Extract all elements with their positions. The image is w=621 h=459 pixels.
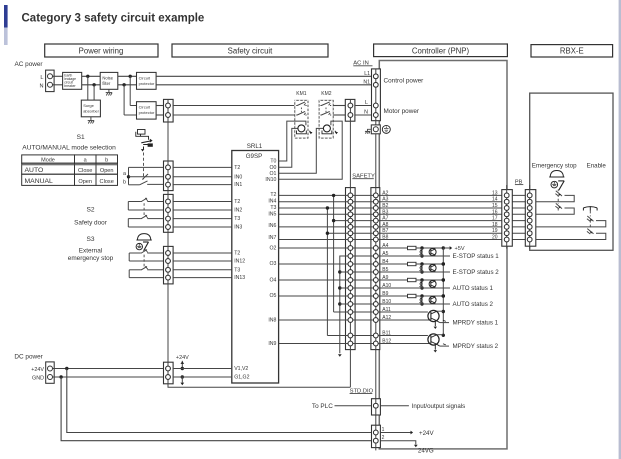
svg-text:T3: T3 xyxy=(234,267,240,273)
wire breaker to noise filter L xyxy=(82,75,101,78)
left strip vertical wire xyxy=(167,122,169,362)
svg-text:V1,V2: V1,V2 xyxy=(234,366,248,372)
wire O1 to KM2 coil xyxy=(279,128,324,173)
svg-text:S1: S1 xyxy=(77,134,85,141)
S1 key switch symbol xyxy=(136,130,153,152)
svg-text:Close: Close xyxy=(78,168,92,174)
svg-text:Emergency stop: Emergency stop xyxy=(532,163,577,170)
label L xyxy=(40,75,43,81)
contactor coil KM2 xyxy=(322,125,338,134)
wire IN9 to B12 xyxy=(279,343,430,345)
svg-text:S3: S3 xyxy=(86,236,94,243)
+24V marker xyxy=(176,355,189,370)
wire IN7 to B8 xyxy=(279,239,535,241)
svg-text:T2: T2 xyxy=(234,165,240,171)
wire L to breaker xyxy=(53,75,63,77)
svg-text:Close: Close xyxy=(100,179,114,185)
wire T0 to KM1 coil xyxy=(279,121,306,161)
svg-text:MPRDY status 1: MPRDY status 1 xyxy=(453,320,499,327)
S3 wire IN12 xyxy=(129,260,163,262)
svg-text:Controller (PNP): Controller (PNP) xyxy=(412,46,470,55)
wire motor strip to AC IN xyxy=(355,106,371,116)
e-stop dashed link xyxy=(557,190,559,211)
G9SP safety controller U1 xyxy=(232,151,279,384)
MPRDY status 2 transistor xyxy=(327,334,498,353)
svg-text:T2: T2 xyxy=(270,192,276,198)
header box Safety circuit xyxy=(172,44,328,57)
svg-text:IN8: IN8 xyxy=(268,318,276,324)
SRL1 label xyxy=(247,143,263,150)
S1 label xyxy=(77,134,85,141)
svg-text:L1: L1 xyxy=(364,71,370,77)
labels 13-20 xyxy=(492,190,498,240)
svg-text:1: 1 xyxy=(382,427,385,433)
svg-text:Input/output signals: Input/output signals xyxy=(412,403,466,410)
circuit protector CP2 xyxy=(137,102,157,119)
svg-text:filter: filter xyxy=(102,81,111,86)
svg-text:E-STOP status 2: E-STOP status 2 xyxy=(453,269,500,276)
S3 label xyxy=(86,236,94,243)
MPRDY status 1 transistor xyxy=(334,310,499,329)
S3 link T3-IN13 xyxy=(128,270,130,278)
DC terminal strip xyxy=(164,362,174,384)
enable switch symbol xyxy=(583,206,597,210)
svg-text:+5V: +5V xyxy=(455,246,465,252)
S2 wire T3 contact xyxy=(128,215,163,219)
wire IN4 to A3 xyxy=(279,201,535,203)
wire +24V rail down xyxy=(67,369,372,433)
svg-text:T2: T2 xyxy=(234,251,240,257)
G9SP right pin labels xyxy=(265,159,276,347)
svg-text:Surge: Surge xyxy=(83,103,94,108)
header box Power wiring xyxy=(45,44,158,57)
svg-text:E-STOP status 1: E-STOP status 1 xyxy=(453,253,500,260)
RBX emergency stop button xyxy=(549,171,564,191)
svg-text:O5: O5 xyxy=(269,293,276,299)
AUTO status 2 optocoupler xyxy=(340,294,494,308)
A strip pin labels xyxy=(382,190,391,344)
wire O4 to A9 xyxy=(279,279,408,281)
label 1 xyxy=(382,427,385,433)
svg-text:Circuit: Circuit xyxy=(139,105,151,110)
PB terminal strip 1 xyxy=(502,185,513,249)
svg-text:MANUAL: MANUAL xyxy=(25,178,54,185)
svg-text:18: 18 xyxy=(492,222,498,228)
svg-text:T3: T3 xyxy=(270,205,276,211)
svg-text:O4: O4 xyxy=(269,278,276,284)
svg-text:Control power: Control power xyxy=(384,78,425,85)
svg-text:S2: S2 xyxy=(86,207,94,214)
label N motor xyxy=(364,109,368,115)
S1 contact a row xyxy=(129,174,164,180)
PE link xyxy=(375,121,377,125)
label L1 xyxy=(364,71,370,77)
terminal circles overlay xyxy=(166,74,532,443)
svg-text:AUTO status 1: AUTO status 1 xyxy=(453,285,494,292)
E-STOP status 1 optocoupler xyxy=(340,246,499,260)
To PLC label xyxy=(312,403,333,410)
wire to surge absorber xyxy=(88,76,94,100)
PB label xyxy=(515,179,523,185)
svg-text:MPRDY status 2: MPRDY status 2 xyxy=(453,343,499,350)
enable contact 2 xyxy=(536,229,606,240)
svg-text:T0: T0 xyxy=(270,159,276,165)
S3 link T2-IN12 xyxy=(128,253,130,261)
T3 test link vertical xyxy=(326,206,329,335)
ground below noise filter xyxy=(106,89,112,95)
S1 subtitle xyxy=(22,145,116,152)
enable dashed link xyxy=(589,211,591,233)
svg-text:Power wiring: Power wiring xyxy=(79,47,124,56)
svg-text:L: L xyxy=(40,75,43,81)
wire KM2 to motor strip xyxy=(333,106,345,116)
S1 mode table xyxy=(22,155,118,186)
wire IN10 to KM2 coil xyxy=(279,121,343,179)
wire L1 xyxy=(156,75,374,77)
e-stop contact 2 xyxy=(536,203,574,214)
S3 wire T2 contact xyxy=(129,249,163,253)
controller outline box xyxy=(379,61,507,449)
svg-text:b: b xyxy=(123,180,126,186)
contactor KM1 box xyxy=(295,100,308,138)
S2 label xyxy=(86,207,94,214)
svg-text:20: 20 xyxy=(492,235,498,241)
KM boxes dash pattern xyxy=(295,100,333,138)
Motor power label xyxy=(384,108,420,115)
KM2 contact L xyxy=(320,101,331,110)
+5V rail xyxy=(442,248,445,337)
e-stop contact 1 xyxy=(536,191,574,202)
S3 wire T3 contact xyxy=(129,266,163,270)
svg-text:AUTO/MANUAL mode selection: AUTO/MANUAL mode selection xyxy=(22,145,116,152)
S3 wire IN13 xyxy=(129,277,163,279)
left AC terminal strip xyxy=(164,99,174,122)
wire GND xyxy=(53,375,164,378)
svg-text:IN7: IN7 xyxy=(268,235,276,241)
S1 terminal strip xyxy=(164,161,174,191)
svg-text:IN12: IN12 xyxy=(234,259,245,265)
contactor coil KM1 xyxy=(297,125,313,134)
S3 emergency stop button symbol xyxy=(136,234,152,251)
svg-text:protector: protector xyxy=(139,110,155,115)
wire B7 row xyxy=(327,232,535,234)
svg-text:Noise: Noise xyxy=(102,75,113,80)
svg-text:O2: O2 xyxy=(269,246,276,252)
S1 dashed link xyxy=(143,153,145,180)
T2 test link vertical xyxy=(332,194,335,312)
wire N1 xyxy=(156,84,374,86)
KM1 mechanical link xyxy=(300,108,302,113)
svg-text:AUTO status 2: AUTO status 2 xyxy=(453,301,494,308)
SAFETY terminal strip xyxy=(346,188,356,350)
S2 link T2-IN2 xyxy=(127,202,129,211)
KM1 contact N xyxy=(296,111,306,120)
label b xyxy=(123,180,126,186)
E-STOP status 2 optocoupler xyxy=(340,262,499,276)
status common return wire xyxy=(338,256,380,357)
GND terminal label xyxy=(32,376,44,382)
svg-text:13: 13 xyxy=(492,190,498,196)
DC power label xyxy=(14,354,43,361)
wire breaker to noise filter N xyxy=(82,83,101,86)
wire T3 to B2 xyxy=(279,207,535,209)
svg-text:G9SP: G9SP xyxy=(246,153,263,160)
AC power terminal xyxy=(46,70,55,92)
To PLC wire xyxy=(335,405,372,407)
ground below surge absorber xyxy=(88,117,94,124)
S3 wires to G9SP xyxy=(173,253,233,278)
svg-text:absorber: absorber xyxy=(83,108,99,113)
wire branch to CP2 xyxy=(124,76,136,115)
svg-text:+24V: +24V xyxy=(31,367,44,373)
label L motor xyxy=(365,100,368,106)
svg-text:T2: T2 xyxy=(234,199,240,205)
DIO terminal strip 1 2 xyxy=(372,425,381,447)
AC power label xyxy=(15,61,44,68)
wire O2 to A4 xyxy=(279,247,408,249)
contactor KM2 label xyxy=(321,91,332,97)
svg-text:N: N xyxy=(364,109,368,115)
KM2 contact N xyxy=(320,111,331,120)
PE terminal xyxy=(371,125,380,134)
S1 contact b row xyxy=(129,181,164,185)
left strip to STD.DIO wire xyxy=(168,384,350,387)
svg-text:14: 14 xyxy=(492,197,498,203)
svg-text:L: L xyxy=(365,100,368,106)
KM1 contact L xyxy=(296,101,306,110)
S1 wire T2 xyxy=(129,166,164,168)
wire noise filter to CP1 N xyxy=(118,83,137,86)
noise filter xyxy=(100,72,118,89)
svg-text:protector: protector xyxy=(139,81,155,86)
svg-text:IN4: IN4 xyxy=(268,199,276,205)
S3 dashed link xyxy=(143,255,145,269)
svg-text:Category 3 safety circuit exam: Category 3 safety circuit example xyxy=(22,12,205,24)
Control power label xyxy=(384,78,425,85)
Input/output signals label xyxy=(412,403,466,410)
+5V supply arrow xyxy=(443,246,465,252)
S2 wire IN2 xyxy=(128,209,163,211)
S1 branch vertical xyxy=(127,167,130,184)
svg-text:IN9: IN9 xyxy=(268,341,276,347)
label N xyxy=(39,84,43,90)
svg-text:RBX-E: RBX-E xyxy=(560,46,584,55)
svg-text:AUTO: AUTO xyxy=(25,167,44,174)
svg-text:2: 2 xyxy=(382,435,385,441)
S2 dashed link xyxy=(143,203,145,217)
wire noise filter to CP1 L xyxy=(118,75,137,78)
wire A7 row xyxy=(334,220,535,222)
24VG output xyxy=(380,441,434,455)
svg-text:KM1: KM1 xyxy=(296,91,307,97)
wire IN6 to A8 xyxy=(279,226,535,228)
svg-text:breaker: breaker xyxy=(64,84,76,88)
svg-text:To PLC: To PLC xyxy=(312,403,333,410)
svg-text:Enable: Enable xyxy=(587,163,607,170)
+24V output xyxy=(380,430,434,437)
A terminal strip xyxy=(371,188,380,350)
wire left strip to KM1 xyxy=(173,106,295,116)
svg-text:N: N xyxy=(39,84,43,90)
wire O5 to B9 xyxy=(279,295,408,297)
svg-text:24VG: 24VG xyxy=(418,447,434,454)
wire O0 to KM1 coil xyxy=(279,128,298,167)
svg-text:T3: T3 xyxy=(234,216,240,222)
RBX-E outline box xyxy=(530,93,613,250)
svg-text:+24V: +24V xyxy=(176,355,189,361)
svg-text:Open: Open xyxy=(100,168,114,174)
wire +24V xyxy=(53,367,164,370)
wire GND rail down xyxy=(61,377,371,441)
motor terminal strip xyxy=(345,99,355,121)
Enable label xyxy=(587,163,607,170)
svg-text:emergency stop: emergency stop xyxy=(68,255,114,262)
safety line vertical xyxy=(349,121,351,187)
svg-text:IN10: IN10 xyxy=(265,177,276,183)
DC power terminal xyxy=(46,362,55,383)
header box RBX-E xyxy=(531,45,613,57)
A-strip vertical line xyxy=(375,134,377,451)
svg-text:IN3: IN3 xyxy=(234,225,242,231)
svg-text:KM2: KM2 xyxy=(321,91,332,97)
label N1 xyxy=(363,79,370,85)
svg-text:Mode: Mode xyxy=(41,157,55,163)
svg-text:Open: Open xyxy=(78,179,92,185)
svg-text:+24V: +24V xyxy=(419,430,434,437)
svg-text:AC power: AC power xyxy=(15,61,44,68)
S2 wires to G9SP xyxy=(173,202,233,228)
safety strip lower vertical xyxy=(349,350,351,388)
S2 wire IN3 xyxy=(128,226,163,228)
wire CP2 to left strip xyxy=(156,106,163,116)
AC IN label xyxy=(353,61,372,67)
svg-text:IN0: IN0 xyxy=(234,174,242,180)
wire G1G2 xyxy=(173,376,233,378)
+24V terminal label xyxy=(31,367,44,373)
Emergency stop label xyxy=(532,163,577,170)
wire IN8 to A12 xyxy=(279,319,430,321)
S1 wires to G9SP xyxy=(173,167,233,184)
S3 subtitle xyxy=(68,248,114,262)
surge absorber xyxy=(81,100,100,117)
circuit protector CP1 xyxy=(137,72,157,89)
label 2 xyxy=(382,435,385,441)
wire O3 to B4 xyxy=(279,263,408,265)
svg-text:b: b xyxy=(105,157,108,163)
svg-text:External: External xyxy=(79,248,102,255)
earth leakage circuit breaker xyxy=(63,72,82,89)
svg-text:O0: O0 xyxy=(269,165,276,171)
svg-text:O3: O3 xyxy=(269,261,276,267)
svg-text:IN5: IN5 xyxy=(268,211,276,217)
Input output wire xyxy=(380,405,409,407)
label a xyxy=(123,171,126,177)
contactor KM1 label xyxy=(296,91,307,97)
wire IN5 to B3 xyxy=(279,213,535,215)
PB terminal strip 2 xyxy=(525,185,536,249)
S2 subtitle xyxy=(74,220,108,227)
contactor KM2 box xyxy=(319,100,333,138)
svg-text:a: a xyxy=(123,171,126,177)
wire N to breaker xyxy=(53,84,63,86)
enable contact 1 xyxy=(536,216,606,227)
svg-text:GND: GND xyxy=(32,376,44,382)
svg-text:Circuit: Circuit xyxy=(139,75,151,80)
S3 terminal strip xyxy=(164,246,174,284)
STD.DIO label xyxy=(350,388,374,394)
svg-text:IN13: IN13 xyxy=(234,275,245,281)
ground at PE xyxy=(365,129,371,133)
protective earth symbol xyxy=(382,125,390,133)
SAFETY label xyxy=(352,173,375,179)
svg-text:16: 16 xyxy=(492,209,498,215)
GND marker xyxy=(180,375,184,385)
blue title accent bar xyxy=(4,5,8,45)
svg-text:N1: N1 xyxy=(363,79,370,85)
svg-text:IN2: IN2 xyxy=(234,208,242,214)
svg-text:19: 19 xyxy=(492,228,498,234)
KM2 mechanical link xyxy=(325,108,327,113)
svg-text:Motor power: Motor power xyxy=(384,108,420,115)
AC IN terminal strip xyxy=(372,69,381,121)
svg-text:SRL1: SRL1 xyxy=(247,143,263,150)
svg-text:IN6: IN6 xyxy=(268,223,276,229)
header box Controller (PNP) xyxy=(374,44,508,57)
To PLC terminal strip xyxy=(372,399,381,415)
title text xyxy=(22,12,205,24)
S2 link T3-IN3 xyxy=(127,219,129,227)
svg-text:DC power: DC power xyxy=(14,354,43,361)
svg-text:17: 17 xyxy=(492,216,498,222)
wire T2 to A2 xyxy=(279,194,535,196)
svg-text:G1,G2: G1,G2 xyxy=(234,375,249,381)
G9SP left pin labels xyxy=(234,165,249,381)
AUTO status 1 optocoupler xyxy=(340,278,494,292)
svg-text:15: 15 xyxy=(492,203,498,209)
S2 terminal strip xyxy=(164,194,174,232)
svg-text:Safety door: Safety door xyxy=(74,220,108,227)
S2 wire T2 contact xyxy=(128,198,163,202)
wire V1V2 xyxy=(173,368,233,370)
svg-text:IN1: IN1 xyxy=(234,182,242,188)
svg-text:Safety circuit: Safety circuit xyxy=(228,47,273,56)
